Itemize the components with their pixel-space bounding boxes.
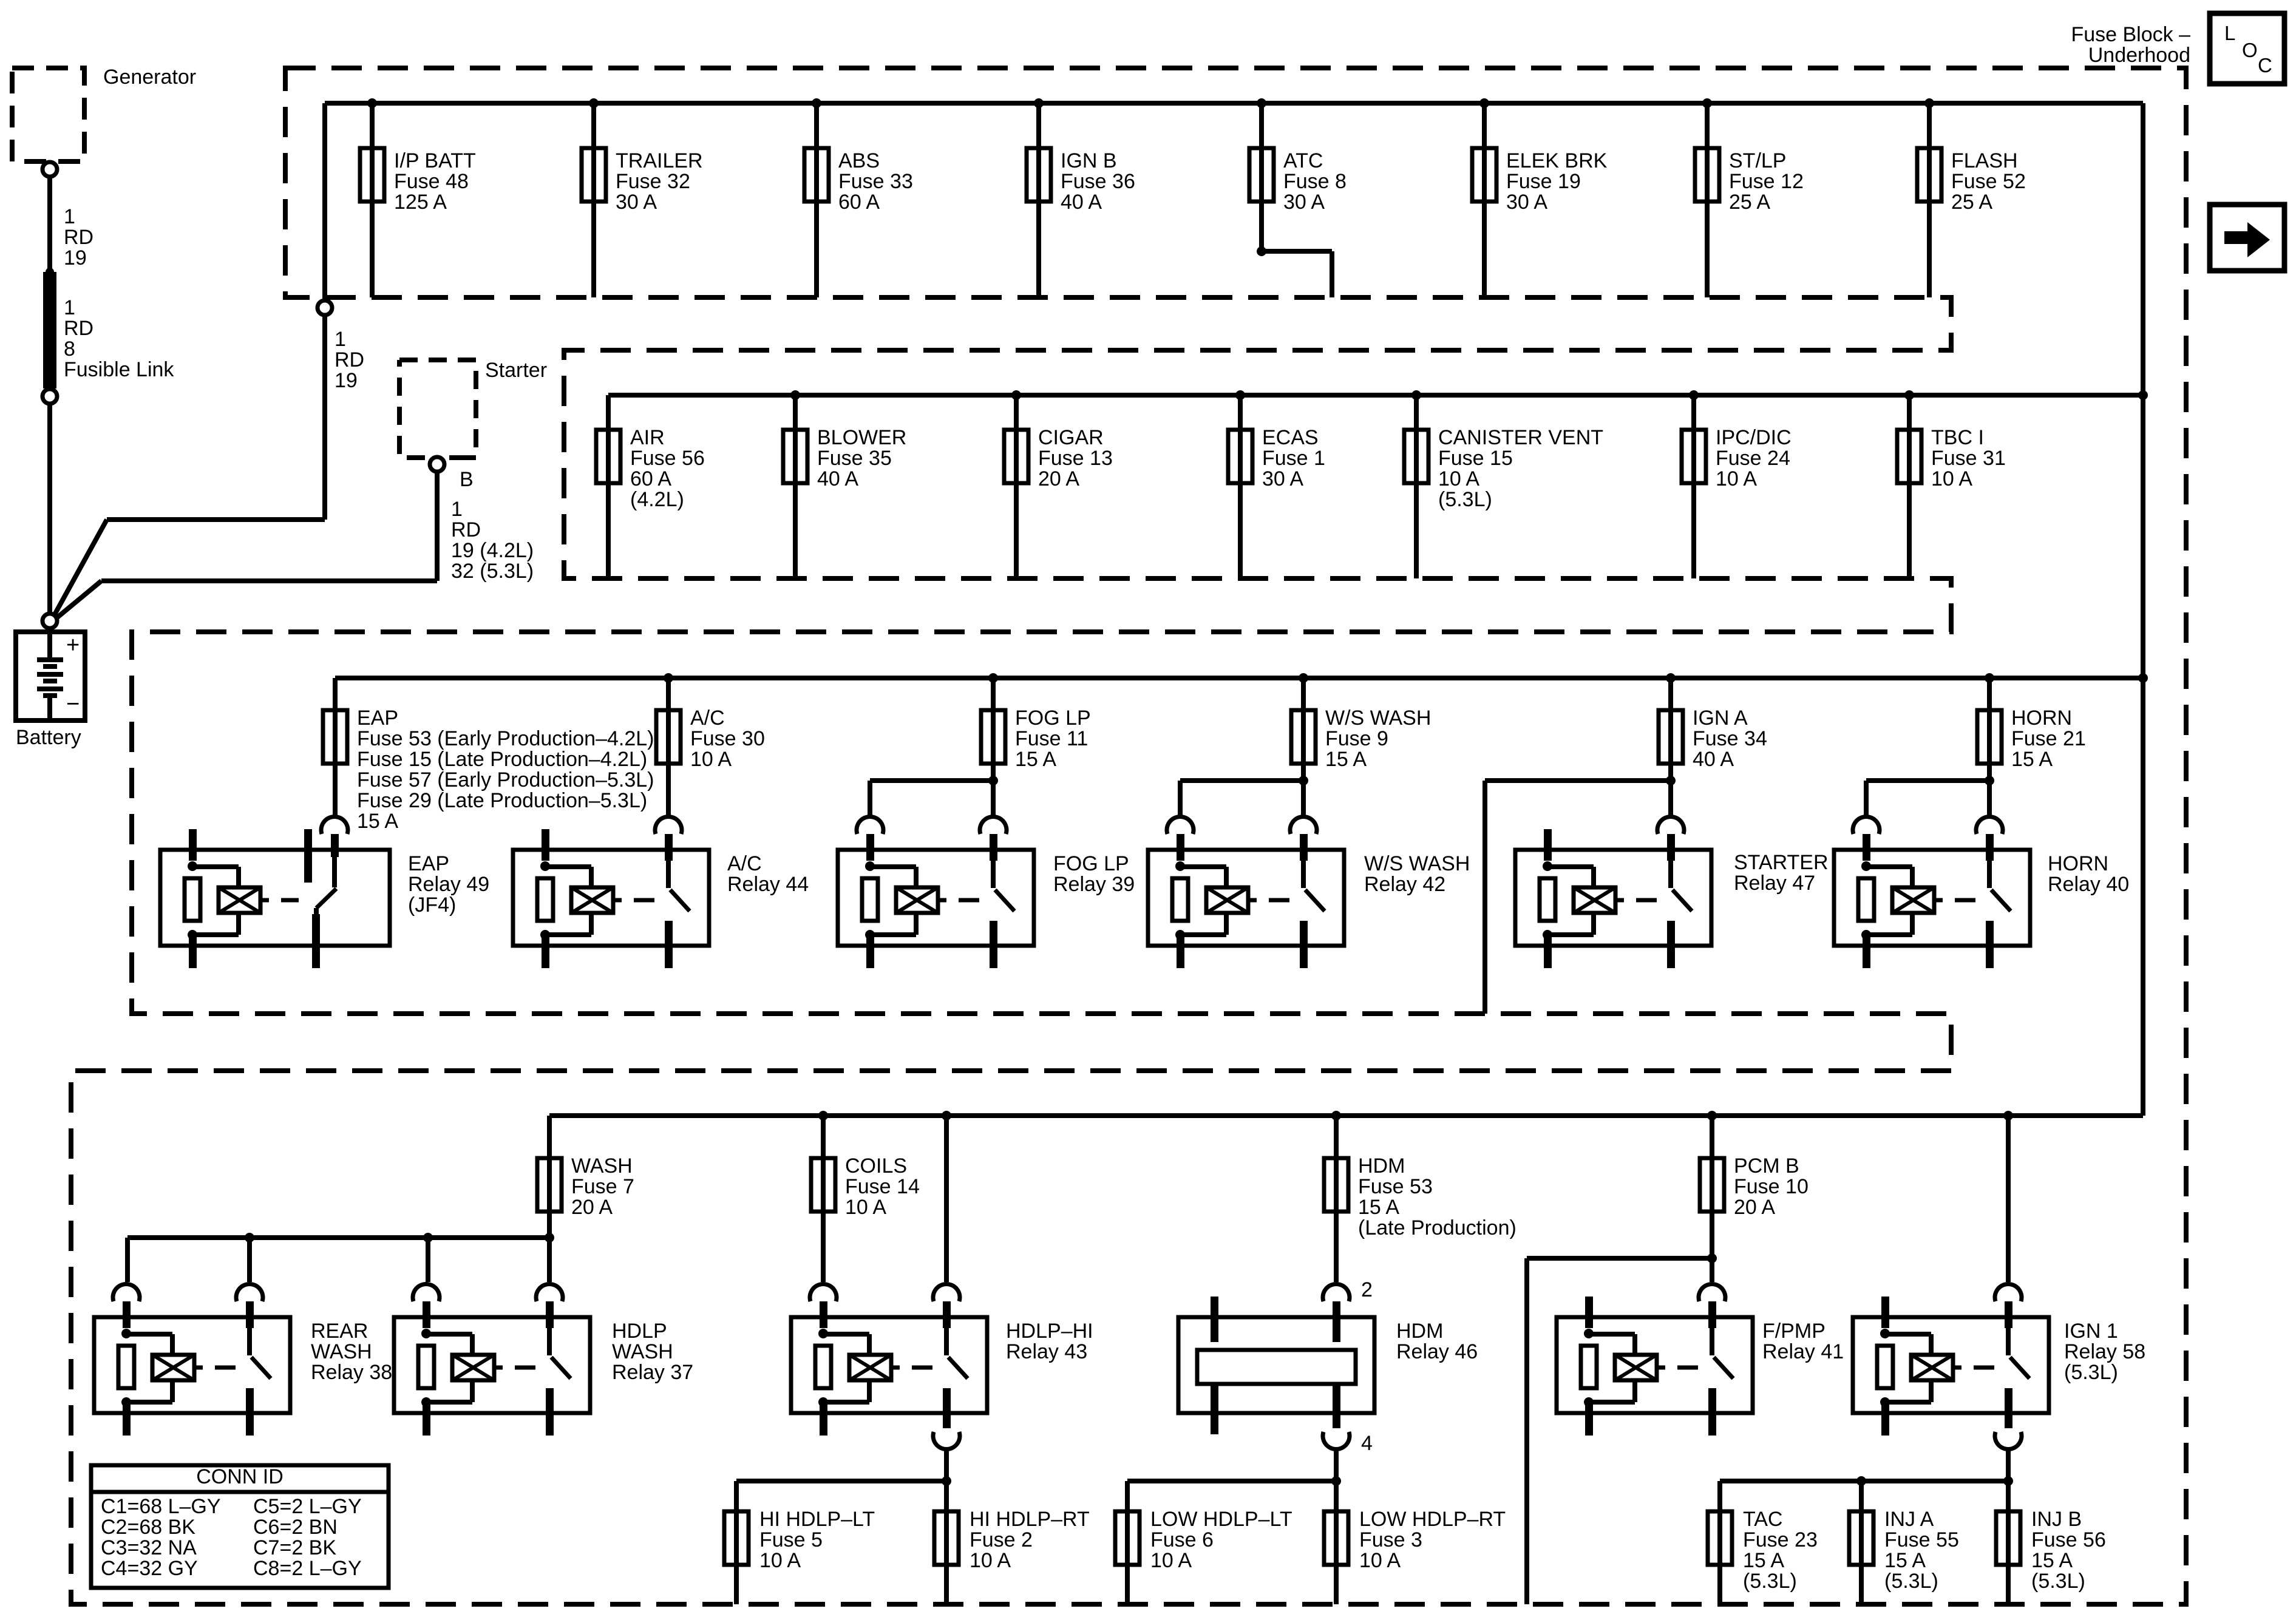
svg-text:Relay 42: Relay 42	[1364, 873, 1445, 896]
svg-text:FLASH: FLASH	[1951, 149, 2018, 172]
svg-text:Fuse 32: Fuse 32	[616, 170, 690, 193]
svg-text:IPC/DIC: IPC/DIC	[1716, 426, 1792, 449]
svg-text:25 A: 25 A	[1729, 191, 1770, 214]
svg-text:TRAILER: TRAILER	[616, 149, 703, 172]
svg-text:F/PMP: F/PMP	[1762, 1320, 1826, 1343]
svg-text:Fuse 24: Fuse 24	[1716, 447, 1790, 470]
svg-text:BLOWER: BLOWER	[817, 426, 906, 449]
svg-text:C6=2 BN: C6=2 BN	[253, 1516, 338, 1539]
svg-text:INJ A: INJ A	[1884, 1508, 1934, 1531]
svg-text:LOW HDLP–LT: LOW HDLP–LT	[1150, 1508, 1292, 1531]
svg-text:A/C: A/C	[690, 707, 725, 730]
svg-text:INJ B: INJ B	[2031, 1508, 2082, 1531]
svg-text:10 A: 10 A	[1931, 467, 1972, 490]
svg-text:Fuse 15: Fuse 15	[1438, 447, 1513, 470]
svg-text:(4.2L): (4.2L)	[630, 488, 684, 511]
svg-text:+: +	[66, 632, 80, 658]
svg-text:Fuse 15 (Late Production–4.2L): Fuse 15 (Late Production–4.2L)	[357, 748, 647, 771]
svg-text:25 A: 25 A	[1951, 191, 1992, 214]
svg-text:1: 1	[64, 296, 75, 319]
svg-text:40 A: 40 A	[1693, 748, 1734, 771]
svg-text:Relay 44: Relay 44	[727, 873, 809, 896]
svg-text:30 A: 30 A	[1283, 191, 1325, 214]
svg-text:10 A: 10 A	[1359, 1549, 1401, 1572]
svg-text:Fuse 9: Fuse 9	[1325, 727, 1388, 750]
svg-text:15 A: 15 A	[2031, 1549, 2073, 1572]
svg-text:60 A: 60 A	[630, 467, 671, 490]
svg-text:HI HDLP–RT: HI HDLP–RT	[970, 1508, 1090, 1531]
svg-text:C1=68 L–GY: C1=68 L–GY	[101, 1495, 221, 1518]
svg-text:Fuse 53 (Early Production–4.2L: Fuse 53 (Early Production–4.2L)	[357, 727, 654, 750]
svg-text:1: 1	[335, 328, 346, 351]
svg-text:EAP: EAP	[408, 852, 449, 875]
svg-text:Fuse 19: Fuse 19	[1506, 170, 1581, 193]
svg-text:40 A: 40 A	[817, 467, 858, 490]
svg-text:Fuse 57 (Early Production–5.3L: Fuse 57 (Early Production–5.3L)	[357, 768, 654, 792]
svg-text:30 A: 30 A	[1506, 191, 1547, 214]
svg-text:L: L	[2224, 22, 2235, 44]
svg-text:Fuse 2: Fuse 2	[970, 1528, 1033, 1551]
svg-text:30 A: 30 A	[1262, 467, 1303, 490]
svg-text:10 A: 10 A	[690, 748, 732, 771]
svg-text:Fuse 30: Fuse 30	[690, 727, 765, 750]
svg-text:Generator: Generator	[103, 66, 196, 89]
svg-text:Relay 37: Relay 37	[612, 1361, 693, 1384]
svg-text:Fuse 8: Fuse 8	[1283, 170, 1347, 193]
svg-text:O: O	[2242, 39, 2258, 61]
svg-text:STARTER: STARTER	[1734, 851, 1829, 874]
svg-text:Fuse 23: Fuse 23	[1743, 1528, 1818, 1551]
svg-text:Fuse 34: Fuse 34	[1693, 727, 1767, 750]
svg-text:Fuse Block –: Fuse Block –	[2071, 23, 2190, 46]
svg-text:Relay 46: Relay 46	[1396, 1340, 1478, 1363]
svg-text:CIGAR: CIGAR	[1038, 426, 1104, 449]
svg-text:Fuse 6: Fuse 6	[1150, 1528, 1214, 1551]
svg-text:RD: RD	[64, 317, 93, 340]
svg-text:20 A: 20 A	[1038, 467, 1079, 490]
svg-text:40 A: 40 A	[1061, 191, 1102, 214]
svg-text:WASH: WASH	[612, 1340, 673, 1363]
svg-text:1: 1	[64, 205, 75, 228]
svg-text:FOG LP: FOG LP	[1053, 852, 1129, 875]
svg-text:HORN: HORN	[2048, 852, 2108, 875]
svg-text:HI HDLP–LT: HI HDLP–LT	[759, 1508, 875, 1531]
svg-text:15 A: 15 A	[1325, 748, 1367, 771]
svg-text:W/S WASH: W/S WASH	[1325, 707, 1431, 730]
svg-text:AIR: AIR	[630, 426, 665, 449]
svg-text:10 A: 10 A	[970, 1549, 1011, 1572]
svg-text:Fuse 14: Fuse 14	[845, 1175, 920, 1198]
svg-text:Fuse 29 (Late Production–5.3L): Fuse 29 (Late Production–5.3L)	[357, 789, 647, 812]
svg-text:RD: RD	[64, 226, 93, 249]
svg-text:Fuse 11: Fuse 11	[1015, 727, 1088, 750]
svg-text:Fuse 3: Fuse 3	[1359, 1528, 1422, 1551]
svg-text:Battery: Battery	[16, 726, 81, 749]
svg-text:10 A: 10 A	[1716, 467, 1757, 490]
svg-text:(5.3L): (5.3L)	[1884, 1570, 1938, 1593]
svg-text:Fuse 7: Fuse 7	[571, 1175, 634, 1198]
svg-text:ELEK BRK: ELEK BRK	[1506, 149, 1608, 172]
svg-text:(5.3L): (5.3L)	[2031, 1570, 2085, 1593]
svg-text:20 A: 20 A	[1734, 1196, 1775, 1219]
svg-text:FOG LP: FOG LP	[1015, 707, 1091, 730]
svg-text:Fuse 53: Fuse 53	[1358, 1175, 1433, 1198]
svg-text:A/C: A/C	[727, 852, 762, 875]
svg-text:HORN: HORN	[2011, 707, 2072, 730]
svg-text:C2=68 BK: C2=68 BK	[101, 1516, 195, 1539]
svg-text:I/P BATT: I/P BATT	[394, 149, 476, 172]
svg-text:15 A: 15 A	[1743, 1549, 1784, 1572]
svg-text:Fuse 48: Fuse 48	[394, 170, 469, 193]
svg-text:ATC: ATC	[1283, 149, 1323, 172]
svg-text:Fuse 13: Fuse 13	[1038, 447, 1113, 470]
svg-text:2: 2	[1361, 1278, 1373, 1301]
svg-text:Relay 47: Relay 47	[1734, 872, 1815, 895]
svg-text:Relay 49: Relay 49	[408, 873, 489, 896]
svg-text:(5.3L): (5.3L)	[1438, 488, 1492, 511]
svg-text:Underhood: Underhood	[2088, 44, 2190, 67]
svg-text:Relay 58: Relay 58	[2064, 1340, 2145, 1363]
svg-text:10 A: 10 A	[1150, 1549, 1192, 1572]
svg-text:Fuse 31: Fuse 31	[1931, 447, 2006, 470]
svg-text:Fuse 10: Fuse 10	[1734, 1175, 1809, 1198]
svg-text:WASH: WASH	[571, 1154, 633, 1178]
svg-text:−: −	[66, 691, 80, 717]
svg-text:(Late Production): (Late Production)	[1358, 1216, 1517, 1239]
svg-text:20 A: 20 A	[571, 1196, 613, 1219]
svg-text:Fuse 5: Fuse 5	[759, 1528, 823, 1551]
svg-text:15 A: 15 A	[1358, 1196, 1399, 1219]
svg-text:C: C	[2258, 54, 2272, 76]
svg-text:60 A: 60 A	[838, 191, 880, 214]
svg-text:10 A: 10 A	[845, 1196, 886, 1219]
svg-text:CANISTER VENT: CANISTER VENT	[1438, 426, 1603, 449]
svg-text:10 A: 10 A	[1438, 467, 1479, 490]
svg-text:COILS: COILS	[845, 1154, 907, 1178]
svg-text:Relay 43: Relay 43	[1006, 1340, 1087, 1363]
svg-text:8: 8	[64, 337, 75, 361]
svg-text:PCM B: PCM B	[1734, 1154, 1799, 1178]
svg-text:Fuse 1: Fuse 1	[1262, 447, 1325, 470]
svg-text:C5=2 L–GY: C5=2 L–GY	[253, 1495, 362, 1518]
svg-text:ABS: ABS	[838, 149, 880, 172]
svg-text:Relay 41: Relay 41	[1762, 1340, 1844, 1363]
svg-text:15 A: 15 A	[2011, 748, 2053, 771]
svg-text:15 A: 15 A	[1015, 748, 1056, 771]
svg-text:C7=2 BK: C7=2 BK	[253, 1536, 336, 1559]
svg-text:LOW HDLP–RT: LOW HDLP–RT	[1359, 1508, 1506, 1531]
svg-text:TAC: TAC	[1743, 1508, 1782, 1531]
svg-text:C8=2 L–GY: C8=2 L–GY	[253, 1557, 362, 1580]
svg-text:Relay 40: Relay 40	[2048, 873, 2129, 896]
svg-text:HDLP: HDLP	[612, 1320, 667, 1343]
svg-text:IGN B: IGN B	[1061, 149, 1117, 172]
svg-text:32 (5.3L): 32 (5.3L)	[451, 560, 534, 583]
svg-text:Fuse 33: Fuse 33	[838, 170, 913, 193]
svg-text:HDM: HDM	[1358, 1154, 1405, 1178]
svg-text:(5.3L): (5.3L)	[2064, 1361, 2118, 1384]
svg-text:C4=32 GY: C4=32 GY	[101, 1557, 198, 1580]
svg-text:TBC I: TBC I	[1931, 426, 1984, 449]
svg-text:Starter: Starter	[485, 359, 547, 382]
svg-text:IGN A: IGN A	[1693, 707, 1748, 730]
svg-text:EAP: EAP	[357, 707, 398, 730]
svg-text:30 A: 30 A	[616, 191, 657, 214]
svg-text:Fusible Link: Fusible Link	[64, 358, 174, 381]
svg-text:B: B	[460, 468, 474, 491]
svg-text:15 A: 15 A	[357, 810, 398, 833]
svg-text:WASH: WASH	[311, 1340, 372, 1363]
svg-text:(5.3L): (5.3L)	[1743, 1570, 1797, 1593]
svg-text:15 A: 15 A	[1884, 1549, 1926, 1572]
svg-text:19: 19	[64, 246, 87, 269]
svg-text:Fuse 21: Fuse 21	[2011, 727, 2086, 750]
svg-text:CONN ID: CONN ID	[196, 1465, 284, 1488]
svg-text:ST/LP: ST/LP	[1729, 149, 1786, 172]
svg-text:Fuse 56: Fuse 56	[630, 447, 705, 470]
svg-text:19 (4.2L): 19 (4.2L)	[451, 539, 534, 562]
svg-text:W/S WASH: W/S WASH	[1364, 852, 1470, 875]
svg-text:1: 1	[451, 498, 463, 521]
svg-text:Fuse 36: Fuse 36	[1061, 170, 1135, 193]
svg-text:HDLP–HI: HDLP–HI	[1006, 1320, 1093, 1343]
svg-text:(JF4): (JF4)	[408, 893, 456, 917]
svg-text:Fuse 12: Fuse 12	[1729, 170, 1804, 193]
svg-text:Fuse 35: Fuse 35	[817, 447, 892, 470]
svg-text:19: 19	[335, 369, 358, 392]
svg-text:10 A: 10 A	[759, 1549, 801, 1572]
svg-text:IGN 1: IGN 1	[2064, 1320, 2118, 1343]
svg-text:Fuse 52: Fuse 52	[1951, 170, 2026, 193]
svg-text:4: 4	[1361, 1432, 1373, 1455]
svg-text:RD: RD	[335, 348, 364, 371]
svg-text:125 A: 125 A	[394, 191, 447, 214]
svg-text:Relay 38: Relay 38	[311, 1361, 392, 1384]
svg-text:RD: RD	[451, 518, 481, 541]
svg-text:Relay 39: Relay 39	[1053, 873, 1135, 896]
svg-text:Fuse 56: Fuse 56	[2031, 1528, 2106, 1551]
svg-text:ECAS: ECAS	[1262, 426, 1319, 449]
svg-text:Fuse 55: Fuse 55	[1884, 1528, 1959, 1551]
svg-text:REAR: REAR	[311, 1320, 368, 1343]
svg-text:HDM: HDM	[1396, 1320, 1443, 1343]
svg-text:C3=32 NA: C3=32 NA	[101, 1536, 197, 1559]
